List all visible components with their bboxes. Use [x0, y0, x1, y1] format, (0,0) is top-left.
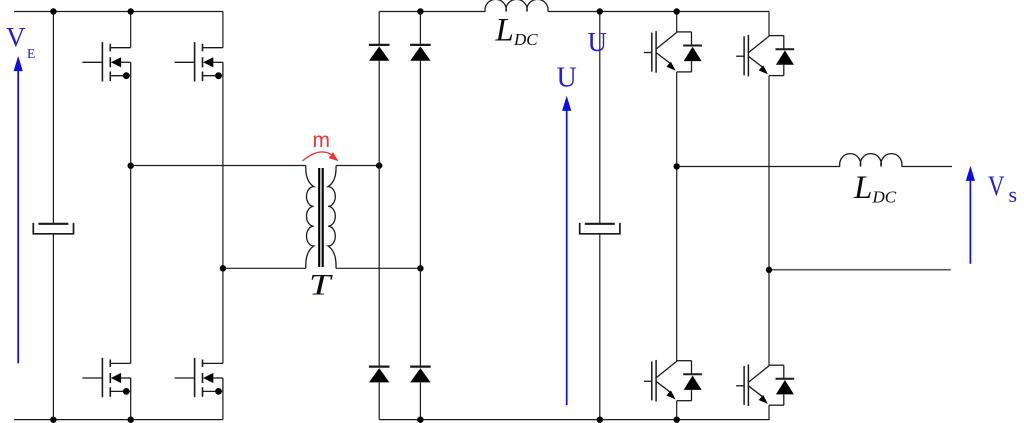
svg-text:U: U [588, 27, 608, 57]
arrow: blue input voltage arrow VE [14, 56, 23, 363]
wire: rectifier/DC bus top rail (inductor to IGBT bridge) [548, 11, 769, 13]
capacitor C1 (input bus capacitor) [33, 223, 73, 234]
svg-text:L: L [853, 170, 872, 206]
node: capacitor leg to top rail junction [597, 8, 603, 14]
node: rectifier right leg to top rail junction [417, 8, 423, 14]
wire: DC bus capacitor leg lower segment [599, 234, 601, 419]
transistor T3 lower-left IGBT with antiparallel diode [644, 360, 702, 402]
node: leg B midpoint to transformer primary bottom [220, 265, 226, 271]
transformer T primary winding [306, 166, 314, 269]
wire: IGBT bridge left leg collector segment (rail to T1) [676, 12, 678, 32]
wire: top rail of input MOSFET bridge [14, 11, 223, 13]
wire: bottom rail of rectifier and DC bus and IGBT bridge [379, 419, 770, 421]
wire: IGBT bridge right leg collector segment (rail corner to T2) [768, 12, 770, 36]
wire: IGBT left leg midpoint to output inductor [677, 166, 840, 168]
wire: IGBT bridge right leg bottom (T4 emitter to bottom rail corner) [768, 405, 770, 419]
wire: IGBT bridge left leg bottom (T3 emitter to bottom rail) [676, 401, 678, 420]
wire: DC bus capacitor leg upper segment [599, 12, 601, 224]
inductor LDC (output smoothing) [840, 154, 902, 167]
svg-text:V: V [6, 22, 26, 52]
wire: rectifier left leg middle segment [378, 61, 380, 367]
svg-text:U: U [557, 63, 577, 94]
svg-text:V: V [988, 171, 1005, 203]
node: leg A midpoint to transformer primary top [128, 163, 134, 169]
transistor T1 upper-left IGBT with antiparallel diode [644, 31, 702, 73]
wire: rectifier left leg top segment [378, 12, 380, 46]
wire: bottom rail of input MOSFET bridge [14, 419, 223, 421]
wire: rectifier right leg middle segment [419, 61, 421, 367]
wire: input source line (left vertical) lower segment [52, 234, 54, 419]
wire: rectifier left leg bottom segment [378, 382, 380, 419]
transformer T secondary winding [328, 166, 336, 269]
arrow: blue DC bus voltage arrow U [562, 96, 571, 405]
wire: leg B middle (Q2 source to Q4 drain) [222, 76, 224, 364]
node: input line to bottom rail junction [50, 417, 56, 423]
wire: rectifier right leg bottom segment [419, 382, 421, 419]
svg-text:m: m [313, 129, 331, 152]
node: rectifier right leg to bottom rail junction [417, 417, 423, 423]
wire: rectifier top rail (left part, to DC inductor) [379, 11, 485, 13]
wire: leg A middle (Q1 source to Q3 drain) [130, 76, 132, 364]
wire: bridge leg A midpoint to transformer primary top [131, 165, 306, 167]
svg-text:DC: DC [872, 188, 897, 207]
node: IGBT left leg to top rail junction [674, 8, 680, 14]
transistor Q3 lower-left MOSFET [82, 358, 130, 397]
inductor LDC (DC-link) [485, 0, 548, 11]
node: leg A bottom rail junction [128, 417, 134, 423]
wire: leg B bottom (Q4 source to bottom rail) [222, 391, 224, 419]
node: IGBT right leg midpoint to output return wire [766, 267, 772, 273]
node: IGBT left leg midpoint to output inductor [674, 163, 680, 169]
wire: leg A upper (rail to Q1 drain) [130, 12, 132, 48]
wire: leg B upper (rail corner to Q2 drain) [222, 12, 224, 48]
wire: transformer secondary top to rectifier left leg [336, 165, 379, 167]
wire: IGBT bridge right leg middle (T2 emitter to T4 collector) [768, 76, 770, 366]
diode D4 lower-right rectifier diode [410, 367, 431, 383]
wire: bridge leg B midpoint to transformer primary bottom [223, 267, 306, 269]
transistor Q4 lower-right MOSFET [175, 358, 223, 397]
node: secondary bottom to rectifier right leg junction [417, 265, 423, 271]
svg-text:L: L [495, 12, 514, 48]
wire: input source line (left vertical) upper segment [52, 12, 54, 224]
arrow: red curved coupling arrow [303, 152, 339, 161]
capacitor C2 (DC bus capacitor) [580, 223, 620, 234]
transistor T4 lower-right IGBT with antiparallel diode [736, 364, 794, 406]
node: IGBT left leg to bottom rail junction [674, 417, 680, 423]
diode D3 lower-left rectifier diode [369, 367, 390, 383]
wire: IGBT bridge left leg middle (T1 emitter to T3 collector) [676, 72, 678, 361]
transistor T2 upper-right IGBT with antiparallel diode [736, 35, 794, 77]
node: leg A top rail junction [128, 8, 134, 14]
wire: leg A bottom (Q3 source to bottom rail) [130, 391, 132, 419]
wire: output inductor to output positive terminal [902, 166, 952, 168]
svg-text:s: s [1009, 182, 1018, 207]
transistor Q1 upper-left MOSFET [82, 42, 130, 81]
svg-text:DC: DC [513, 30, 538, 49]
svg-text:E: E [27, 46, 35, 61]
node: capacitor leg to bottom rail junction [597, 417, 603, 423]
node: secondary top to rectifier left leg junction [376, 162, 382, 168]
diode D1 upper-left rectifier diode [369, 45, 390, 61]
wire: rectifier right leg top segment [419, 12, 421, 46]
diode D2 upper-right rectifier diode [410, 45, 431, 61]
wire: IGBT right leg midpoint to output negative terminal [769, 269, 951, 271]
transformer T core (double bar) [319, 168, 323, 267]
wire: transformer secondary bottom to rectifier right leg [336, 267, 420, 269]
arrow: blue output voltage arrow Vs [966, 166, 975, 264]
svg-text:T: T [309, 269, 333, 302]
node: input line to top rail junction [50, 8, 56, 14]
transistor Q2 upper-right MOSFET [175, 42, 223, 81]
